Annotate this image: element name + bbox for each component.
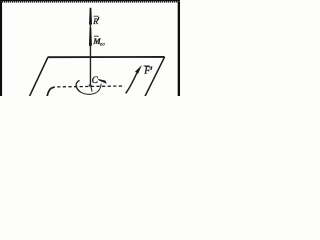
- vector R' slender arrowhead: [89, 8, 92, 25]
- right border bar: [178, 2, 180, 96]
- force F' slender arrowhead: [135, 65, 142, 74]
- dashed line of action through C: [57, 85, 124, 88]
- vector M slender arrowhead: [89, 28, 92, 46]
- svg-text:F: F: [143, 66, 151, 77]
- svg-text:C: C: [92, 75, 99, 85]
- plane right edge: [145, 57, 165, 97]
- plane top edge: [48, 56, 165, 58]
- wire: central vertical axis through C: [89, 8, 91, 86]
- node C junction blob at axis foot: [89, 84, 92, 86]
- rotation arc around axis (couple symbol): [76, 80, 81, 92]
- svg-text:го: го: [100, 43, 105, 48]
- rotation arrow head (points up-left): [97, 79, 106, 84]
- hook tail at left end of line of action: [47, 87, 55, 96]
- plane left edge: [29, 57, 48, 97]
- top border dotted line: [0, 0, 180, 3]
- left border bar: [0, 2, 2, 96]
- force F' arrow shaft: [126, 73, 137, 94]
- svg-text:R: R: [92, 17, 98, 26]
